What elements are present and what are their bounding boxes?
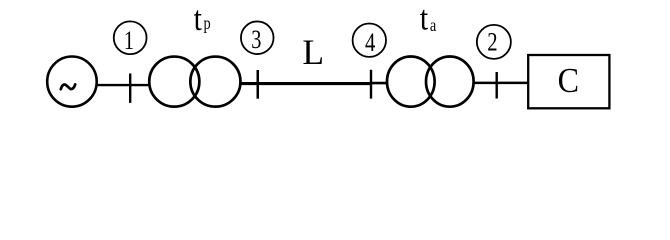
generator G (source circle with ~) (47, 57, 97, 107)
wire node 4 to transformer ta (371, 82, 388, 85)
wire generator to transformer tp (97, 84, 150, 86)
transformer ta primary winding (387, 57, 435, 107)
generator tilde symbol (61, 84, 75, 89)
svg-text:a: a (430, 14, 436, 35)
busbar tick node 2 (496, 72, 498, 99)
transformer tp primary winding (149, 57, 199, 107)
transmission line L (tp to node 4) (241, 82, 372, 85)
busbar tick node 1 (129, 74, 131, 103)
svg-text:C: C (558, 62, 579, 100)
node 1 circle (114, 21, 147, 54)
transformer tp secondary winding (190, 57, 240, 107)
wire ta to load C (474, 82, 529, 85)
svg-text:t: t (194, 0, 202, 39)
transformer ta secondary winding (426, 57, 474, 107)
svg-text:1: 1 (124, 27, 134, 56)
busbar tick node 4 (370, 70, 372, 99)
node 4 circle (353, 24, 386, 57)
load box C (528, 55, 609, 108)
svg-text:3: 3 (251, 26, 261, 55)
busbar tick node 3 (257, 70, 260, 99)
node 3 circle (241, 21, 274, 54)
svg-text:4: 4 (365, 28, 375, 57)
svg-text:p: p (204, 12, 211, 33)
svg-text:t: t (420, 0, 428, 38)
svg-text:L: L (302, 32, 324, 72)
svg-text:2: 2 (487, 28, 497, 57)
node 2 circle (477, 25, 511, 59)
